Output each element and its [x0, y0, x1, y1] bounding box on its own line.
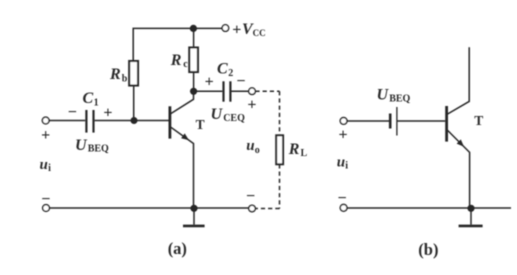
label plus output top: [247, 96, 256, 113]
svg-text:(b): (b): [418, 240, 438, 259]
svg-text:+: +: [41, 127, 50, 144]
terminal input bottom (b): [340, 204, 347, 211]
label Uceq: [211, 106, 246, 124]
label RL: [288, 141, 308, 159]
svg-text:+: +: [205, 73, 214, 90]
label ui (b): [337, 155, 349, 172]
battery Ubeq negative plate: [389, 114, 392, 129]
wire bottom rail (b): [347, 207, 511, 209]
label ui (a): [40, 157, 52, 174]
ground (b): [459, 208, 483, 226]
svg-text:CC: CC: [253, 28, 266, 38]
transistor T (a) collector lead: [171, 91, 194, 113]
label Rb: [109, 66, 128, 84]
resistor Rb: [129, 61, 138, 86]
label uo: [246, 138, 259, 156]
transistor T (b) emitter arrow: [457, 139, 464, 146]
svg-text:R: R: [170, 52, 182, 69]
label Ubeq: [75, 137, 109, 155]
wire C2 to output terminal: [232, 90, 249, 92]
svg-text:u: u: [337, 155, 345, 171]
svg-text:o: o: [255, 145, 260, 156]
svg-text:BEQ: BEQ: [389, 93, 410, 104]
label +Vcc: [232, 21, 265, 39]
svg-text:+: +: [103, 105, 112, 122]
label Rc: [170, 52, 188, 70]
wire battery to base (b): [397, 120, 445, 122]
resistor RL: [276, 135, 283, 164]
label C2: [217, 60, 233, 78]
label (b): [418, 240, 438, 259]
svg-text:i: i: [345, 161, 348, 172]
terminal input (b): [340, 118, 347, 125]
label minus output bottom: [246, 188, 255, 205]
transistor T (b) collector lead: [448, 47, 470, 114]
svg-text:R: R: [109, 66, 121, 83]
label Ubeq (b): [377, 87, 411, 105]
label T (a): [196, 117, 205, 132]
svg-text:−: −: [246, 188, 255, 205]
svg-text:i: i: [48, 163, 51, 174]
wire Rc bottom: [193, 72, 195, 91]
wire Rb bottom: [133, 86, 135, 121]
svg-text:U: U: [211, 106, 224, 123]
svg-text:2: 2: [228, 68, 233, 79]
svg-text:L: L: [301, 148, 308, 159]
svg-text:+: +: [247, 96, 256, 113]
svg-text:−: −: [41, 191, 50, 208]
node base junction: [131, 117, 138, 124]
svg-text:u: u: [246, 138, 254, 154]
svg-text:CEQ: CEQ: [223, 113, 245, 124]
wire dashed RL bottom: [279, 164, 281, 208]
wire input to battery (b): [347, 120, 389, 122]
svg-text:−: −: [236, 73, 245, 90]
terminal input (a): [42, 117, 49, 124]
wire bottom rail (a): [49, 207, 248, 209]
label + input (a): [41, 127, 50, 144]
transistor T (a) emitter arrow: [181, 133, 189, 140]
label T (b): [474, 113, 483, 128]
svg-text:c: c: [183, 59, 188, 70]
wire Rc top: [193, 28, 195, 47]
label minus input bottom (a): [41, 191, 50, 208]
svg-text:BEQ: BEQ: [88, 144, 109, 155]
wire dashed output bottom: [255, 208, 279, 210]
label plus C1: [103, 105, 112, 122]
svg-text:1: 1: [94, 98, 99, 109]
transistor T (b) emitter lead: [448, 130, 470, 208]
terminal output top: [249, 88, 256, 95]
svg-text:u: u: [40, 157, 48, 173]
label (a): [168, 239, 187, 258]
svg-text:R: R: [288, 141, 300, 158]
terminal +Vcc: [222, 25, 229, 32]
wire top rail (a): [133, 28, 222, 61]
battery Ubeq positive plate: [396, 107, 398, 136]
node collector: [190, 88, 197, 95]
svg-text:b: b: [122, 74, 128, 85]
label minus input bottom (b): [338, 190, 347, 207]
resistor Rc: [189, 48, 198, 73]
capacitor C2: [224, 81, 231, 101]
svg-text:+: +: [339, 127, 348, 144]
svg-text:U: U: [377, 87, 390, 104]
label minus C2: [236, 73, 245, 90]
node emitter-ground (a): [190, 205, 197, 212]
svg-text:(a): (a): [168, 239, 187, 258]
transistor T (b) base bar: [445, 106, 448, 142]
label minus C1: [68, 104, 77, 121]
transistor T (a) emitter lead: [171, 127, 194, 208]
transistor T (a) base bar: [168, 106, 171, 138]
label plus C2: [205, 73, 214, 90]
wire collector to C2: [194, 90, 223, 92]
terminal input bottom (a): [43, 205, 50, 212]
wire dashed RL top: [279, 91, 281, 135]
svg-text:U: U: [75, 137, 88, 154]
ground (a): [183, 208, 205, 226]
wire C1 to base: [95, 120, 169, 122]
label C1: [83, 90, 99, 108]
svg-text:−: −: [338, 190, 347, 207]
svg-text:T: T: [474, 113, 483, 128]
node emitter-ground (b): [467, 205, 474, 212]
svg-text:−: −: [68, 104, 77, 121]
capacitor C1: [86, 110, 93, 133]
svg-text:T: T: [196, 117, 205, 132]
terminal output bottom: [249, 205, 256, 212]
svg-text:+: +: [232, 21, 241, 38]
node collector-supply junction: [190, 25, 197, 32]
svg-text:C: C: [83, 90, 94, 107]
wire dashed output top: [255, 90, 279, 92]
label plus input (b): [339, 127, 348, 144]
wire input to C1: [49, 120, 85, 122]
svg-text:C: C: [217, 60, 228, 77]
